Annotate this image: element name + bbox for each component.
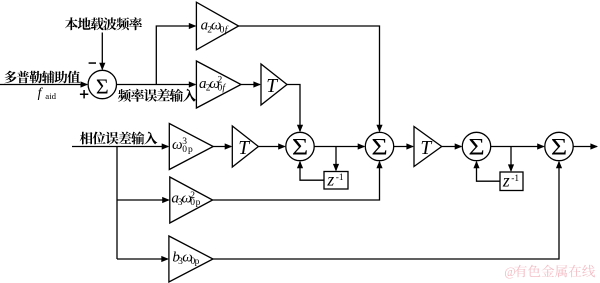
- integrator T2: [232, 126, 258, 167]
- wire branch into gain b3w0p: [117, 256, 169, 262]
- svg-text:T: T: [238, 138, 250, 159]
- wire S2 output to T3: [394, 143, 414, 149]
- svg-text:p: p: [196, 198, 201, 208]
- gain block b3w0p: [169, 236, 213, 282]
- label 频率误差输入: [118, 89, 196, 102]
- svg-text:Σ: Σ: [371, 134, 387, 160]
- wire branch into gain a3w0p^2: [117, 197, 170, 203]
- delay block Z1: [324, 172, 348, 190]
- gain block w0p^3: [169, 124, 213, 170]
- svg-text:T: T: [266, 76, 278, 97]
- svg-text:p: p: [188, 145, 193, 155]
- wire S0 output to gain a2w0f2: [117, 81, 197, 87]
- label 本地载波频率: [65, 17, 142, 30]
- wire Z1 output up into summer S1 bottom: [297, 161, 324, 181]
- gain block a2w0f^2: [196, 61, 241, 108]
- summer S0: [88, 70, 116, 98]
- label f_aid: [38, 85, 57, 101]
- svg-text:-1: -1: [511, 174, 519, 184]
- gain block a2w0f: [196, 2, 238, 50]
- label a2w0f^2: [199, 76, 226, 94]
- wire S3 output into summer S4: [491, 143, 545, 149]
- svg-text:0: 0: [190, 198, 195, 208]
- svg-text:Σ: Σ: [96, 75, 109, 98]
- wire branch down for phase taps: [116, 147, 118, 260]
- wire S4 output (final): [573, 143, 598, 149]
- wire b3w0p output up into summer S4 bottom: [213, 161, 562, 259]
- minus sign at S0: [89, 62, 96, 64]
- svg-text:-1: -1: [336, 173, 344, 183]
- integrator T1: [261, 64, 287, 105]
- wire phase input to gain w0p^3: [72, 143, 169, 149]
- wire T1 output down into summer S1 top: [287, 85, 303, 133]
- label b3w0p: [172, 250, 199, 267]
- wire branch down into delay Z2: [508, 147, 514, 173]
- svg-text:z: z: [502, 171, 510, 191]
- delay block Z2: [500, 172, 523, 191]
- svg-text:T: T: [420, 138, 432, 159]
- svg-text:p: p: [195, 257, 200, 267]
- summer S1: [286, 132, 314, 160]
- label T3: [420, 138, 432, 159]
- label a3w0p^2: [171, 191, 200, 209]
- label z^-1 in Z1: [326, 170, 344, 190]
- label z^-1 in Z2: [502, 171, 520, 191]
- label 相位误差输入: [80, 132, 158, 145]
- summer S4: [545, 132, 573, 160]
- wire T3 output into summer S3: [442, 143, 463, 149]
- wire Z2 output up into summer S3 bottom: [473, 161, 500, 182]
- wire branch down into delay Z1: [333, 147, 339, 172]
- watermark @有色金属在线: [504, 265, 595, 280]
- label a2w0f: [201, 18, 229, 36]
- label T2: [238, 138, 250, 159]
- svg-text:ω: ω: [172, 137, 183, 153]
- wire S1 output into summer S2: [314, 143, 365, 149]
- plus sign at S0: [80, 90, 88, 98]
- summer S2: [365, 132, 393, 160]
- svg-text:Σ: Σ: [551, 134, 567, 160]
- wire T2 output into summer S1: [258, 143, 285, 149]
- wire branch up to gain a2w0f: [156, 23, 196, 85]
- wire a2w0f output down into summer S2 top: [239, 26, 383, 132]
- label w0p^3: [172, 137, 193, 155]
- label T1: [266, 76, 278, 97]
- summer S3: [462, 132, 490, 160]
- svg-text:z: z: [326, 170, 334, 190]
- svg-text:Σ: Σ: [468, 134, 484, 160]
- gain block a3w0p^2: [170, 177, 213, 223]
- wire a3w0p^2 output up into summer S2 bottom: [213, 161, 383, 200]
- wire carrier-freq down into summer S0: [99, 33, 105, 71]
- label 多普勒辅助值: [4, 71, 80, 84]
- wire doppler input into summer S0: [0, 81, 88, 87]
- integrator T3: [414, 127, 442, 167]
- wire w0p^3 output to T2: [213, 143, 232, 149]
- svg-text:aid: aid: [45, 91, 56, 101]
- svg-text:Σ: Σ: [292, 134, 308, 160]
- svg-text:0: 0: [182, 145, 187, 155]
- wire a2w0f^2 output to T1: [241, 81, 261, 87]
- svg-text:@: @: [504, 265, 516, 279]
